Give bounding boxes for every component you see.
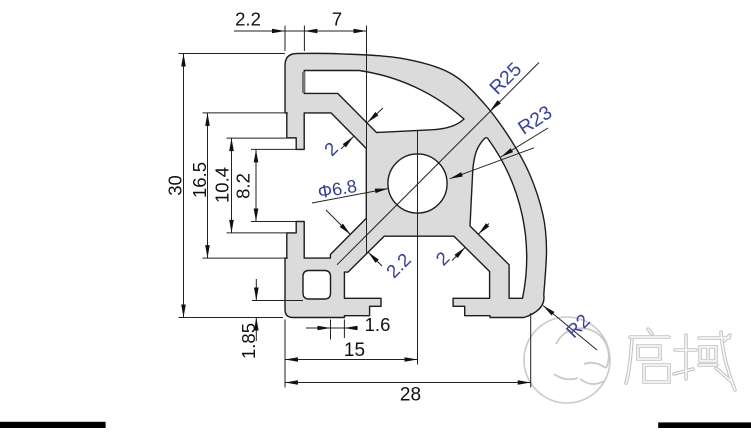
extension line profile centre xyxy=(417,131,419,365)
extension line hook bottom 10.4 xyxy=(227,232,297,234)
watermark logo circle xyxy=(524,317,610,403)
leader R2 xyxy=(543,306,597,351)
leader wall 2 upper a xyxy=(367,108,383,123)
svg-text:30: 30 xyxy=(165,175,186,196)
extension line slot opening top 8.2 xyxy=(251,148,303,150)
extension line cavity wall 1.6 xyxy=(343,320,345,339)
dimension line 15 bottom xyxy=(285,359,418,361)
extension line corner void 1.6 xyxy=(330,320,332,340)
extension line step 1.85 xyxy=(252,300,303,302)
dimension line 16.5 left xyxy=(207,113,209,258)
aluminum profile cross-section body xyxy=(285,53,547,317)
dimension line 28 bottom xyxy=(285,382,531,384)
svg-text:10.4: 10.4 xyxy=(212,167,233,203)
leader diameter 6.8 right xyxy=(450,148,534,179)
dimension line 2.2 top xyxy=(234,30,304,32)
svg-text:7: 7 xyxy=(332,9,342,30)
dimension line 8.2 left xyxy=(255,149,257,221)
extension line arc end 28 xyxy=(530,313,532,388)
leader wall 2 lower a xyxy=(478,224,489,235)
svg-text:1.85: 1.85 xyxy=(238,323,259,359)
extension line slot lip 2.2 xyxy=(303,26,305,52)
black bar bottom-left xyxy=(0,422,106,428)
extension line bottom left corner xyxy=(284,320,286,388)
leader wall 2 upper b xyxy=(341,137,354,150)
svg-text:8.2: 8.2 xyxy=(233,173,254,199)
svg-text:28: 28 xyxy=(400,385,421,406)
leader diameter 6.8 left xyxy=(312,189,388,203)
extension line hook top 10.4 xyxy=(227,137,297,139)
dimension line 7 top xyxy=(304,30,366,32)
dimension line 1.6 bottom xyxy=(306,327,358,329)
leader wall 2 lower b xyxy=(452,247,465,260)
leader web 2.2 lower xyxy=(368,252,382,266)
watermark characters Qi Yu xyxy=(626,329,735,390)
leader R23 xyxy=(501,128,548,157)
extension line profile left face xyxy=(284,26,286,52)
svg-text:15: 15 xyxy=(344,340,365,361)
extension line cavity top 16.5 xyxy=(203,112,289,114)
extension line web tangent 7 xyxy=(366,26,368,255)
slot slit accent top-left xyxy=(302,72,305,93)
extension line profile bottom xyxy=(179,317,284,319)
extension line slot opening bottom 8.2 xyxy=(251,221,303,223)
black bar bottom-right xyxy=(658,422,751,428)
extension line profile top xyxy=(179,53,286,55)
svg-text:1.6: 1.6 xyxy=(365,314,391,335)
dimension line 1.85 upper xyxy=(255,279,257,301)
dimension line 1.85 lower xyxy=(255,318,257,342)
dimension line 10.4 left xyxy=(231,138,233,233)
extension line cavity bottom 16.5 xyxy=(203,257,289,259)
dimension line 30 left xyxy=(183,54,185,318)
leader web 2.2 upper xyxy=(326,210,351,235)
centerline 45deg with R25 callout xyxy=(337,63,539,265)
svg-text:16.5: 16.5 xyxy=(189,162,210,198)
arrowheads xyxy=(181,29,554,385)
svg-text:2.2: 2.2 xyxy=(235,9,261,30)
